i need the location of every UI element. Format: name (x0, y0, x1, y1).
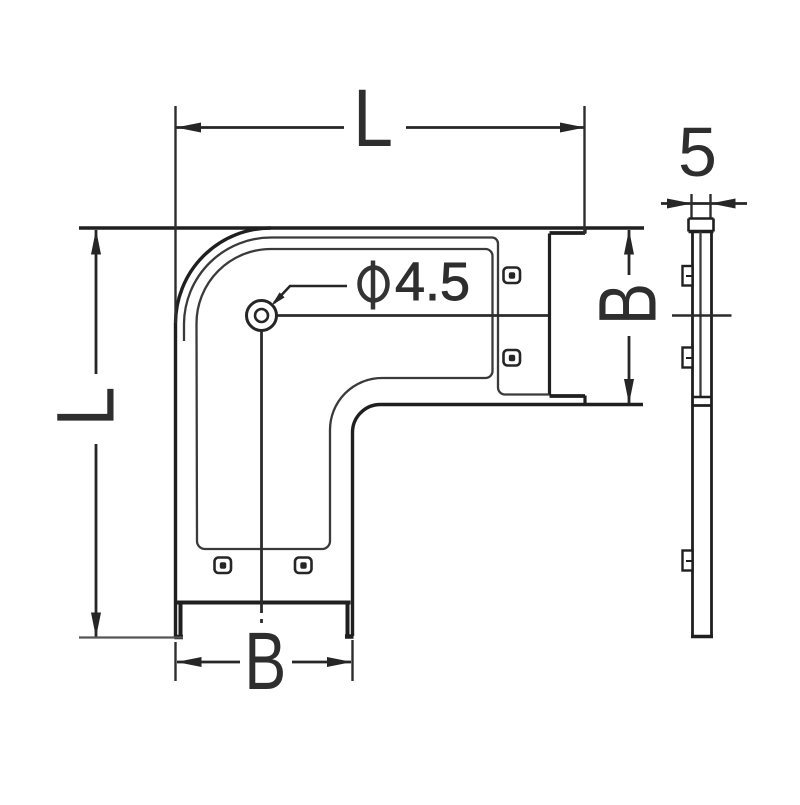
hole vertical centerline (260, 331, 263, 624)
right cap step line (548, 234, 551, 396)
right cap bottom hook (583, 396, 586, 405)
outer contour: inner concave arc (353, 405, 381, 433)
foot right stub (346, 603, 350, 637)
outer contour: corner arc (176, 228, 272, 324)
inner wall line: corner arc (184, 238, 549, 395)
dim B bottom: left extension line (174, 642, 176, 681)
dim B bottom: line (177, 661, 351, 664)
dim L top: line (176, 126, 585, 129)
side view: left edge (691, 232, 694, 638)
svg-text:L: L (353, 73, 393, 164)
dim L top: right arrow (560, 123, 585, 133)
phi symbol of callout (360, 261, 388, 310)
hole horizontal centerline (276, 314, 549, 317)
outer contour: bottom edge of horizontal arm with B-right extension (381, 403, 644, 406)
outer contour: right edge of vertical arm (351, 433, 354, 637)
dim 5: left extension line (690, 194, 692, 218)
latch hole lower right (504, 350, 521, 366)
latch hole foot right (295, 558, 312, 574)
raised panel contour (197, 249, 493, 549)
svg-text:4.5: 4.5 (395, 252, 470, 312)
dim L top: right extension line (583, 106, 585, 234)
inner wall line: left short (183, 324, 185, 342)
side view: right edge (710, 232, 713, 638)
dim 5: right extension line (709, 194, 711, 218)
dim B bottom: right arrow (327, 657, 352, 667)
side view: hook bump 3 (683, 551, 693, 571)
dim L left: bottom extension line (79, 636, 183, 638)
hole outer circle (247, 301, 277, 331)
side view: hook bump 2 (683, 348, 693, 368)
foot left stub (179, 603, 183, 637)
dim 5 top of side view: line (661, 202, 747, 205)
side view: inner tongue line (699, 232, 701, 398)
foot right hook (345, 634, 354, 639)
dim B right: bottom arrow (624, 379, 634, 404)
foot left hook (175, 635, 184, 640)
side view: hook bump 1 (683, 266, 693, 286)
right cap bottom stub (550, 394, 586, 398)
dim L left: line (95, 230, 98, 637)
dim 5: right inward arrow (711, 199, 736, 209)
side view: top cap bottom line (689, 230, 714, 233)
dim B bottom: left arrow (177, 657, 202, 667)
svg-text:B: B (244, 616, 286, 707)
dim L top: left arrow (176, 123, 201, 133)
outer contour: left edge (174, 324, 177, 638)
svg-text:L: L (41, 387, 132, 427)
right cap top hook (583, 228, 586, 234)
latch hole foot left (215, 558, 232, 574)
foot step line (177, 601, 351, 605)
side view: top cap (689, 219, 714, 232)
side view: cross line at arm bottom (outer) (693, 404, 712, 407)
leader line for hole callout (274, 286, 347, 303)
side view: centerline tick (672, 314, 732, 316)
side view: bottom cap (691, 635, 713, 639)
dim B right: top arrow (624, 230, 634, 255)
side view: cross line at arm bottom (inner) (693, 396, 712, 398)
dim 5: left inward arrow (667, 199, 692, 209)
hole inner circle (255, 309, 268, 322)
dim B bottom: right extension line (351, 640, 353, 681)
latch hole upper right (504, 268, 521, 284)
outer contour: top edge with L-left + B-right extension line (79, 226, 644, 229)
svg-text:B: B (583, 283, 674, 325)
dim L left: top arrow (91, 230, 101, 255)
dim L left: bottom arrow (91, 613, 101, 638)
svg-text:5: 5 (678, 113, 717, 191)
leader arrowhead (272, 292, 285, 305)
dim L top: left extension line (174, 106, 176, 323)
dim B right: line (628, 230, 631, 404)
right cap top stub (550, 231, 586, 235)
